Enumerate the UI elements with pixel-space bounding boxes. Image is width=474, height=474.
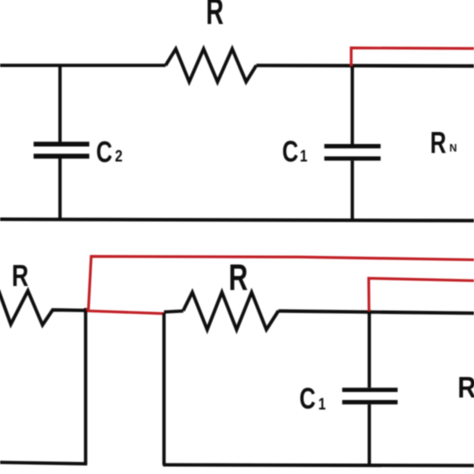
capacitor C1 bottom plate (bottom circuit) bbox=[342, 400, 397, 404]
label RN (bottom circuit, cropped at right edge) bbox=[458, 371, 474, 404]
svg-text:2: 2 bbox=[115, 147, 123, 166]
capacitor C2 bottom plate bbox=[34, 154, 90, 159]
svg-text:N: N bbox=[449, 142, 457, 154]
wire: top rail right segment (top circuit) bbox=[256, 64, 474, 68]
label R (bottom second resistor) bbox=[229, 257, 248, 298]
svg-text:R: R bbox=[229, 257, 248, 298]
svg-text:C: C bbox=[282, 134, 298, 168]
svg-text:C: C bbox=[299, 381, 315, 415]
wire: stage-2 rail right segment (bottom circuit) bbox=[279, 311, 474, 313]
svg-text:1: 1 bbox=[318, 395, 326, 414]
svg-text:1: 1 bbox=[300, 147, 308, 166]
wire: C1 branch upper lead (bottom circuit) bbox=[368, 312, 371, 388]
wire: top rail left segment (top circuit) bbox=[0, 64, 166, 67]
wire: stage-2 input vertical drop (bottom circuit) bbox=[162, 313, 165, 465]
resistor R3 (bottom circuit second resistor) bbox=[183, 292, 278, 329]
capacitor C1 bottom plate (top circuit) bbox=[324, 156, 380, 160]
resistor R1 (top circuit series resistor) bbox=[166, 49, 257, 82]
capacitor C1 top plate (bottom circuit) bbox=[342, 388, 397, 392]
label RN (top circuit noise resistor) bbox=[430, 126, 446, 160]
wire: C1 branch lower lead (top circuit) bbox=[351, 161, 354, 220]
wire: stage-1 ground rail segment (bottom circuit, left) bbox=[0, 462, 87, 463]
wire: node B vertical drop to stage-1 ground bbox=[84, 310, 87, 463]
node C: junction of stage-2 rail with C1 branch (bottom circuit) bbox=[368, 310, 371, 315]
svg-text:R: R bbox=[430, 126, 446, 160]
label R (top resistor), top-cropped at image edge bbox=[206, 0, 224, 32]
wire: red link from node B to stage-2 input node bbox=[86, 311, 165, 314]
node A: junction of top rail with C1 branch bbox=[351, 64, 354, 70]
wire: C1 branch upper lead (top circuit) bbox=[351, 66, 354, 144]
wire: stage-2 ground rail (bottom circuit, right) bbox=[163, 463, 474, 467]
node B: junction after first resistor (bottom circuit) bbox=[84, 308, 87, 313]
svg-text:R: R bbox=[12, 258, 29, 293]
wire: C2 branch upper lead bbox=[58, 65, 61, 142]
wire: red jumper up from node B and right along top (bottom circuit) bbox=[88, 256, 474, 311]
resistor R2 (bottom circuit first resistor, cropped at left edge) bbox=[0, 290, 86, 325]
label R (bottom first resistor) bbox=[12, 258, 29, 293]
svg-text:R: R bbox=[458, 371, 474, 404]
wire: C1 branch lower lead (bottom circuit) bbox=[368, 404, 371, 465]
wire: C2 branch lower lead bbox=[58, 158, 61, 219]
wire: red jumper from node A up and right to RN (top circuit) bbox=[351, 48, 474, 66]
svg-text:C: C bbox=[96, 135, 112, 169]
label C2 bbox=[96, 135, 112, 169]
wire: stage-2 input lead to resistor (bottom circuit) bbox=[164, 311, 183, 312]
wire: red jumper from node C up and right to RN (bottom circuit) bbox=[369, 278, 474, 311]
capacitor C1 top plate (top circuit) bbox=[324, 144, 380, 148]
label C1 (top circuit) bbox=[282, 134, 298, 168]
capacitor C2 top plate bbox=[34, 142, 90, 147]
svg-text:R: R bbox=[206, 0, 224, 32]
label C1 (bottom circuit) bbox=[299, 381, 315, 415]
wire: bottom rail (top circuit ground return) bbox=[0, 219, 474, 220]
